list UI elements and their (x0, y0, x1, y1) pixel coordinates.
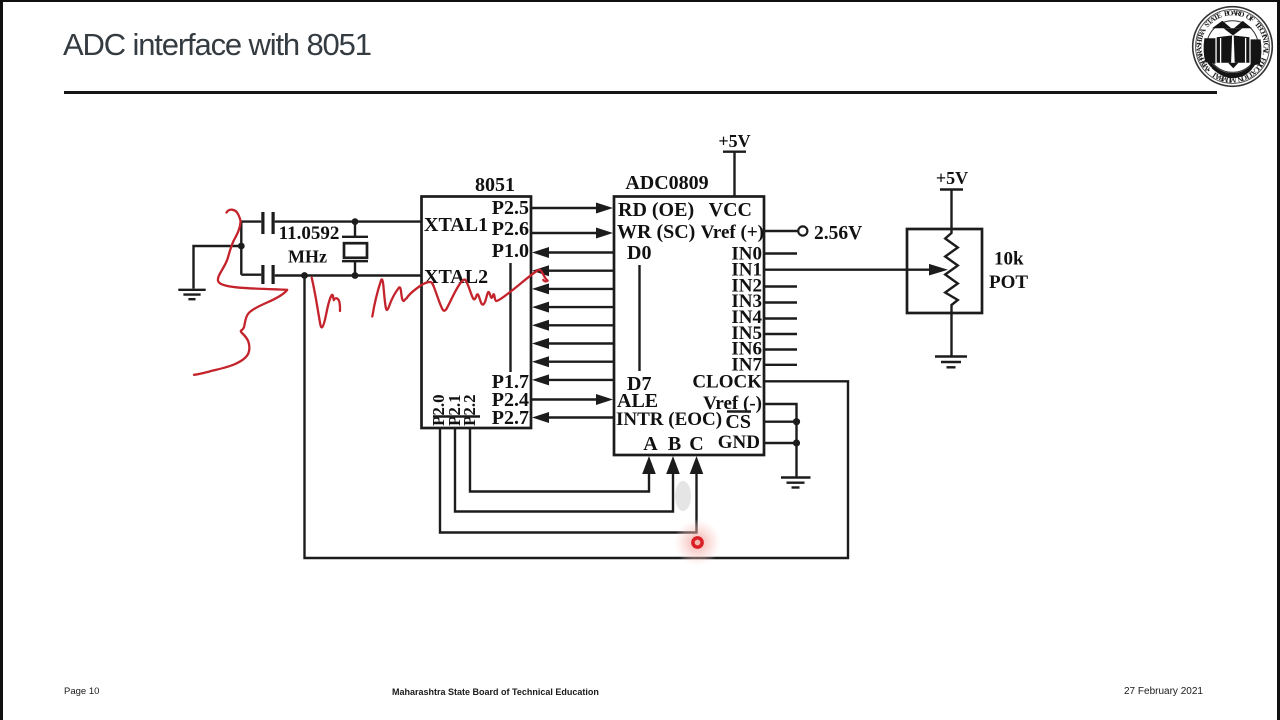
svg-text:CLOCK: CLOCK (692, 372, 762, 393)
wire IN7 stub (764, 364, 797, 366)
wire C2 to XTAL2 (275, 274, 422, 276)
svg-text:2.56V: 2.56V (814, 223, 862, 244)
value label 10k (994, 249, 1024, 270)
open terminal circle 2.56V (798, 226, 807, 235)
pin label CLOCK (692, 372, 762, 393)
wire Vref- to ground net (764, 404, 797, 477)
pin label IN2 (731, 276, 762, 297)
wire P2.5 to RD with arrow (531, 203, 613, 214)
pin label D0 (627, 242, 651, 264)
rotated pin label P2.1 (445, 394, 464, 426)
wire P2.1 to B select (455, 428, 680, 512)
pin label P1.0 (492, 240, 529, 262)
svg-text:CS: CS (725, 411, 751, 433)
data bus wire D2 (532, 283, 614, 294)
wire to ground left (194, 246, 242, 289)
svg-text:+5V: +5V (936, 168, 968, 188)
ground symbol POT (935, 357, 967, 368)
pin label RD (OE) (618, 199, 694, 221)
wire POT to ground (950, 313, 952, 356)
value label 2.56V (814, 223, 862, 244)
red pen annotation stroke wave across XTAL2 (372, 270, 547, 317)
svg-text:P2.5: P2.5 (492, 197, 529, 219)
chip label 8051 (475, 174, 515, 196)
svg-text:P2.7: P2.7 (492, 407, 529, 429)
svg-text:8051: 8051 (475, 174, 515, 196)
svg-text:D0: D0 (627, 242, 651, 264)
wire C1 left (241, 220, 261, 222)
pin label XTAL1 (424, 214, 488, 236)
wire CLOCK feedback: right then down, bottom run, up to XTAL2 tap (305, 276, 849, 559)
data bus wire D7 to P1.7 (532, 374, 614, 385)
pin label B (668, 433, 681, 455)
svg-text:+5V: +5V (718, 131, 750, 151)
value label 11.0592 (279, 223, 340, 244)
svg-text:XTAL1: XTAL1 (424, 214, 488, 236)
value label MHz (288, 247, 327, 267)
pin label IN3 (731, 291, 762, 312)
pin label P2.4 (492, 389, 529, 411)
pin label CS with overline (725, 411, 751, 433)
footer date (1124, 686, 1203, 697)
svg-text:ADC0809: ADC0809 (625, 172, 708, 194)
ADC internal bus range line D0-D7 (638, 265, 640, 371)
footer institution name (392, 687, 599, 697)
svg-text:C: C (689, 433, 703, 455)
rotated pin label P2.0 (429, 394, 448, 426)
svg-text:Vref (+): Vref (+) (701, 222, 764, 243)
pin label Vref (+) (701, 222, 764, 243)
pin label WR (SC) (617, 221, 695, 243)
ground symbol left (178, 290, 205, 299)
svg-text:MHz: MHz (288, 247, 327, 267)
data bus wire D5 (532, 338, 614, 349)
ground symbol ADC (781, 478, 811, 488)
pin label ALE (617, 390, 658, 412)
power symbol +5V above VCC (718, 131, 750, 197)
pin label IN6 (731, 339, 762, 360)
rotated pin label P2.2 (460, 394, 479, 426)
svg-text:A: A (643, 433, 658, 455)
pin label P2.6 (492, 218, 529, 240)
svg-text:WR (SC): WR (SC) (617, 221, 695, 243)
wire IN2 stub (764, 285, 797, 287)
junction at crystal bottom (352, 272, 359, 279)
value label POT (989, 272, 1028, 293)
data bus wire D3 (532, 302, 614, 313)
red pen annotation stroke left squiggle (194, 210, 287, 375)
title underline rule (64, 91, 1217, 94)
wire C2 left (241, 274, 261, 276)
pin label VCC (709, 199, 752, 221)
wire IN5 stub (764, 333, 797, 335)
svg-text:RD (OE): RD (OE) (618, 199, 694, 221)
junction GND ground (793, 439, 800, 446)
title: ADC interface with 8051 (63, 27, 371, 63)
svg-text:POT: POT (989, 272, 1028, 293)
svg-text:P2.2: P2.2 (460, 394, 479, 426)
wire P2.2 to A select (470, 428, 656, 492)
data bus wire D4 (532, 320, 614, 331)
pin label P2.5 (492, 197, 529, 219)
ADC U2 ADC0809 box (614, 197, 764, 456)
wire capacitor join vertical (240, 222, 242, 275)
svg-text:B: B (668, 433, 681, 455)
svg-text:P1.0: P1.0 (492, 240, 529, 262)
pin label IN1 (731, 260, 762, 281)
pin label IN5 (731, 323, 762, 344)
svg-text:10k: 10k (994, 249, 1024, 270)
wire CS to ground net (764, 421, 797, 423)
wire IN1 to potentiometer wiper with arrow (764, 264, 948, 276)
data bus wire D6 (532, 356, 614, 367)
data bus wire D0 to P1.0 (532, 247, 614, 258)
capacitor C1 top plates (261, 212, 274, 234)
pin label A (643, 433, 658, 455)
junction at crystal top (352, 218, 359, 225)
wire IN3 stub (764, 301, 797, 303)
pin label P2.7 (492, 407, 529, 429)
wire P2.6 to WR with arrow (531, 228, 613, 239)
wire IN0 stub (764, 252, 797, 254)
wire IN4 stub (764, 317, 797, 319)
laser pointer dot (674, 519, 722, 567)
wire Vref+ stub (764, 230, 798, 232)
junction CS ground (793, 418, 800, 425)
pin label IN4 (731, 307, 762, 328)
logo MSBTE seal (1193, 7, 1273, 87)
footer page number (64, 686, 99, 697)
wire P2.0 to C select (440, 428, 703, 533)
potentiometer R1 resistor zigzag (945, 229, 958, 313)
pin label Vref (-) (703, 393, 762, 414)
wire GND pin to ground net (764, 442, 797, 444)
wire IN6 stub (764, 348, 797, 350)
chip label ADC0809 (625, 172, 708, 194)
capacitor C2 bottom plates (261, 265, 274, 284)
pin label INTR (EOC) (616, 409, 722, 430)
pin label IN7 (731, 355, 762, 376)
junction capacitor ground tap (238, 243, 245, 250)
wire P2.4 to ALE with arrow (531, 394, 613, 405)
red pen annotation stroke check mark (312, 278, 340, 328)
wire C1 to XTAL1 (275, 220, 422, 222)
microcontroller U1 8051 box (422, 197, 532, 429)
8051 internal bus range line P1.0-P1.7 (509, 263, 511, 372)
pin label XTAL2 (424, 266, 488, 288)
pin label IN0 (731, 244, 762, 265)
junction XTAL2 clock tap (301, 272, 308, 279)
wire INTR to P2.7 with arrow (532, 412, 614, 423)
svg-text:11.0592: 11.0592 (279, 223, 340, 244)
pin label C (689, 433, 703, 455)
pin label D7 (627, 373, 651, 395)
data bus wire D1 (532, 265, 614, 276)
baseline bar under rotated labels (433, 415, 480, 417)
crystal Y1 (342, 222, 368, 276)
pin label P1.7 (492, 371, 529, 393)
svg-text:VCC: VCC (709, 199, 752, 221)
pin label GND (718, 432, 760, 453)
svg-text:P2.6: P2.6 (492, 218, 529, 240)
potentiometer R1 box (907, 229, 982, 313)
svg-text:GND: GND (718, 432, 760, 453)
power symbol +5V above POT (936, 168, 968, 229)
